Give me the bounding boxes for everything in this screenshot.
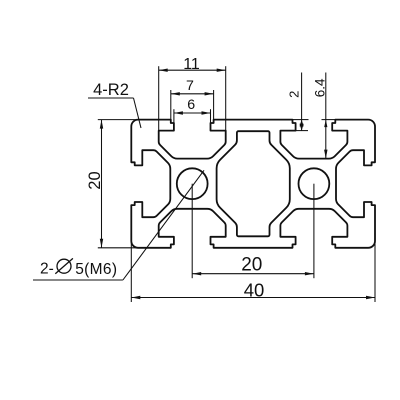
profile outer outline (131, 120, 375, 248)
svg-text:40: 40 (244, 280, 265, 301)
svg-text:11: 11 (183, 56, 200, 73)
svg-text:6.4: 6.4 (312, 78, 327, 97)
central cavity (217, 131, 290, 236)
dimension 7: slot opening width (171, 93, 214, 95)
hole right (299, 168, 330, 199)
svg-text:20: 20 (86, 171, 104, 189)
dimension 20: profile height (101, 120, 103, 248)
svg-text:2-: 2- (40, 261, 54, 278)
dimension 11: slot cavity width (159, 69, 226, 71)
svg-text:2: 2 (287, 91, 302, 98)
dimension 6: slot throat width (174, 112, 211, 114)
dimension 20: hole centre distance (192, 273, 314, 275)
svg-text:4-R2: 4-R2 (93, 81, 129, 99)
dimension 2: lip depth (301, 73, 303, 131)
svg-text:7: 7 (186, 78, 194, 94)
hole left (177, 168, 208, 199)
svg-text:6: 6 (187, 97, 195, 113)
dimension 40: profile width (131, 297, 375, 299)
svg-text:20: 20 (241, 255, 262, 276)
dimension 6.4: slot depth (325, 73, 327, 159)
svg-text:5(M6): 5(M6) (75, 261, 117, 278)
